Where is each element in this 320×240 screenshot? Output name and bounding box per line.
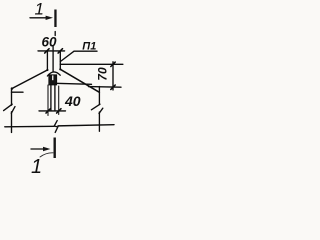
rod right	[54, 85, 56, 111]
extension line right (top hanger side)	[59, 51, 61, 69]
left anchor post top	[11, 88, 13, 105]
section arrow 1 (top) : line	[30, 17, 48, 19]
rod left	[50, 85, 52, 111]
clamp slit	[52, 75, 53, 80]
svg-text:60: 60	[42, 34, 58, 49]
right wall bottom	[98, 112, 100, 131]
dimension line 40	[39, 110, 66, 112]
section arrow 1 (top) : arrowhead	[46, 16, 53, 20]
right wall break symbol	[91, 104, 102, 113]
svg-text:1: 1	[35, 0, 44, 18]
clamp body	[49, 75, 57, 85]
extension line left of 40 dim	[47, 85, 49, 116]
tick right of 60 dim	[58, 49, 62, 53]
section arrow 1 (bottom) : arrowhead	[43, 147, 50, 151]
junction blob left hub	[46, 69, 48, 71]
left anchor post bottom	[11, 112, 13, 133]
ground line left segment	[5, 125, 54, 128]
junction blob left anchor	[11, 87, 13, 89]
centre axis of hanger	[52, 47, 54, 72]
svg-text:1: 1	[31, 156, 42, 178]
section arrow 1 (bottom) : cut bar	[54, 138, 56, 159]
tick top of 70 dim	[111, 62, 115, 66]
left post break symbol	[4, 104, 15, 113]
svg-text:70: 70	[95, 67, 109, 81]
tick left of 60 dim	[45, 49, 49, 53]
ground break symbol	[54, 121, 58, 133]
tick bottom of 70 dim	[111, 85, 115, 89]
wire right horizontal	[60, 63, 123, 65]
dimension line 70 (vertical)	[112, 62, 114, 90]
extension line left (top hanger side)	[46, 51, 48, 70]
junction blob right hub	[59, 68, 61, 70]
dimension line 60	[38, 50, 65, 52]
extension of 70 dim bottom	[89, 86, 122, 89]
section arrow 1 (bottom) : line	[31, 148, 46, 150]
dome of suspension clamp	[47, 72, 60, 76]
svg-text:40: 40	[64, 93, 81, 109]
right wall top	[98, 87, 100, 105]
ground line right segment	[58, 125, 114, 126]
left ground stub	[12, 91, 24, 93]
tick left of 40 dim	[46, 109, 50, 113]
section arrow 1 (top) : cut bar	[54, 10, 56, 28]
leader line of П1	[60, 51, 97, 61]
wire left (guy)	[12, 70, 47, 89]
svg-text:П1: П1	[82, 40, 96, 52]
right lower line (from clamp)	[56, 83, 92, 84]
axis stub below cut bar	[54, 32, 56, 36]
stray arc artifact	[40, 153, 53, 157]
wire right diagonal (guy)	[60, 69, 99, 92]
extension line right of 40 dim	[58, 86, 60, 115]
tick right of 40 dim	[57, 109, 61, 113]
